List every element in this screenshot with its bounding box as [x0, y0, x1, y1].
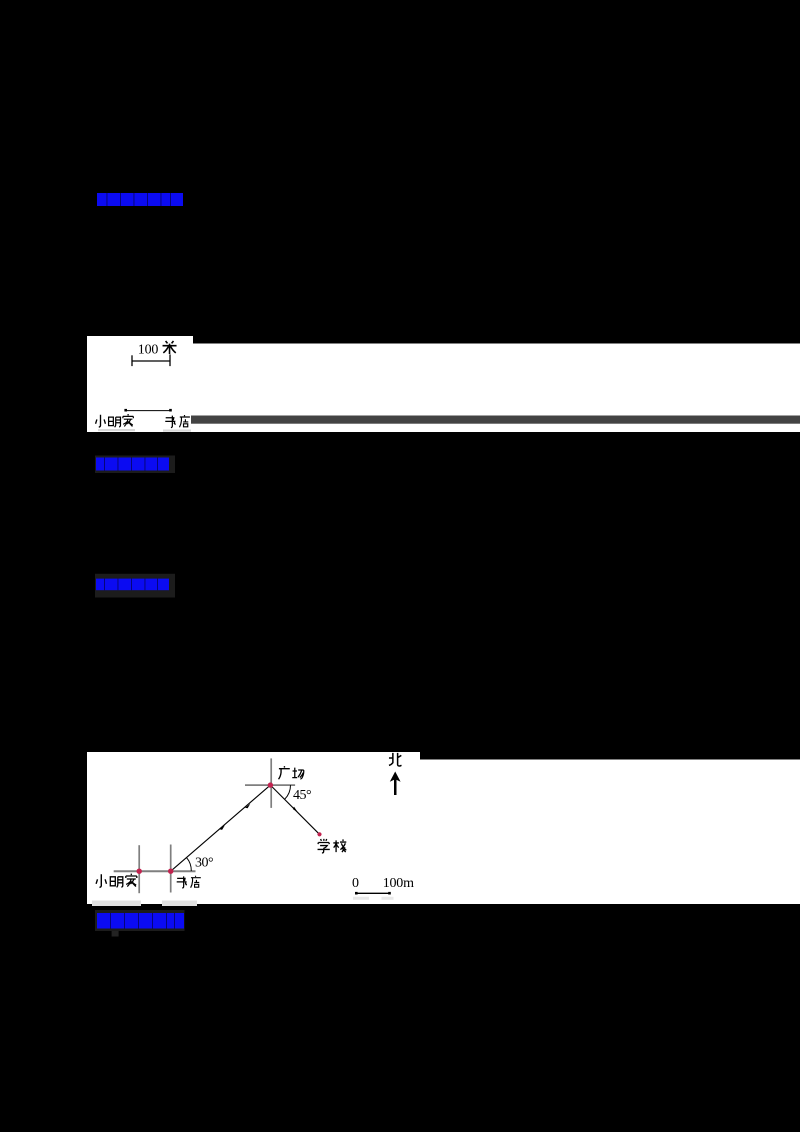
heading 4	[97, 913, 184, 929]
white panel right part	[420, 760, 800, 905]
heading 3 dark backing	[95, 574, 175, 598]
label 学校	[318, 839, 330, 853]
north arrow	[390, 772, 401, 782]
svg-text:100m: 100m	[383, 876, 414, 891]
scale bar left tick	[131, 355, 133, 366]
plaza red dot	[268, 782, 273, 787]
svg-text:0: 0	[352, 876, 359, 891]
heading 4 dark backing	[95, 910, 185, 931]
arrowhead 2	[245, 804, 250, 809]
path 书店-广场	[171, 785, 271, 871]
white panel left part	[87, 752, 420, 904]
home red dot	[137, 869, 142, 874]
heading 2	[96, 458, 169, 471]
smudge under 书店	[162, 901, 197, 907]
word 小明家	[96, 415, 106, 427]
underline under 书店	[163, 430, 191, 432]
road tick 小明家	[138, 845, 140, 893]
dotted segment line	[126, 410, 170, 412]
arrowhead 3	[293, 807, 298, 813]
arrowhead 1	[220, 825, 225, 830]
word 书店 map	[177, 876, 187, 888]
white panel left part	[87, 336, 193, 432]
scale segment	[356, 892, 390, 894]
30 degree arc	[187, 858, 192, 871]
notch under heading 4	[112, 931, 119, 937]
scale end dot right	[388, 892, 391, 895]
smudge under scale 0	[353, 897, 369, 900]
plaza crosshair vertical	[270, 758, 272, 808]
left end dot	[124, 409, 127, 412]
road horizontal	[114, 870, 196, 872]
heading 2 dark backing	[95, 456, 175, 474]
scale bar line	[132, 360, 170, 362]
scale bar right tick	[169, 354, 171, 366]
bookstore red dot	[168, 869, 173, 874]
path 广场-学校	[270, 785, 319, 834]
label 米	[163, 341, 177, 354]
svg-text:45°: 45°	[293, 788, 311, 803]
right end dot	[169, 409, 172, 412]
smudge under 100m	[382, 897, 394, 900]
heading 3	[96, 579, 169, 591]
45 degree arc	[285, 785, 291, 799]
road tick 书店	[170, 845, 172, 893]
plaza crosshair horizontal	[245, 784, 295, 786]
white panel right part	[193, 344, 800, 433]
word 小明家 map	[96, 874, 106, 887]
smudge under 小明家	[92, 901, 141, 907]
scale end dot left	[355, 892, 358, 895]
label 广场	[279, 766, 290, 779]
svg-text:100: 100	[138, 342, 159, 357]
dark divider bar	[191, 416, 800, 424]
svg-text:30°: 30°	[195, 855, 213, 870]
school red dot	[317, 832, 321, 836]
word 书店	[165, 416, 175, 428]
label 北	[389, 753, 402, 766]
underline under 小明家	[98, 429, 135, 431]
heading 1	[97, 193, 183, 206]
